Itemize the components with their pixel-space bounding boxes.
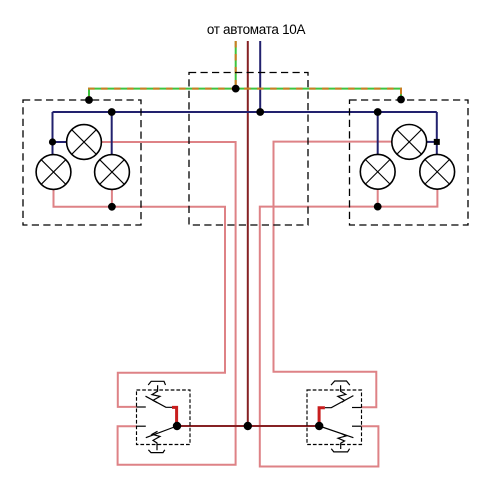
SW1 bottom bracket [148,450,164,453]
junction box left (lamp box) [23,100,141,225]
node: PE end right box [397,96,405,104]
wire: N drop to lamp R3 [436,112,438,155]
wire: PE horizontal run to both lamp boxes [89,89,401,100]
wire: L phase dark red from breaker down to switch commons [177,41,319,426]
SW1 upper lever [146,396,173,407]
switch box left (dotted) [137,390,191,445]
wire: pink switched-line right pair (lamps R2,R3 to right switch lower throw) [260,189,379,467]
node: N branch lamp R1 [434,139,440,145]
wire: N branch to lamp L1 [53,141,68,143]
node: PE end left box [85,96,93,104]
wire: pink from lamp R3 bottom [378,189,438,207]
wire: N neutral dark blue [53,41,437,155]
SW1 lower spring [152,431,160,450]
node: pink junction left pair [108,203,116,211]
SW2 lower throw terminal [352,425,362,427]
lamp L2 [36,155,71,190]
SW2 lower lever [319,426,353,438]
lamp L3 [95,155,130,190]
junction box right (lamp box) [350,100,469,225]
SW2 top bracket [331,381,350,385]
lamp L1 [67,125,102,160]
wire: pink switched-line right single (lamp R1 to right switch upper throw) [274,142,392,408]
SW2 upper spring [338,385,346,402]
node: pink junction right pair [374,203,382,211]
node: SW2 common [315,422,323,430]
wire: N drop to lamp R2 [377,112,379,155]
wire: pink switched-line left group (pair lamps L2,L3 to left switch upper throw) [54,142,438,467]
SW2 bottom bracket [331,449,349,452]
node: N junction left box [108,108,116,116]
SW1 top bracket [148,381,165,385]
lamp R3 [420,154,455,189]
SW2 lower spring [338,434,346,449]
wire: pink switched-line left single (lamp L1 to left switch lower throw) [101,142,236,465]
wire: N drop to lamp L3 [111,112,113,155]
node: N junction top [256,108,264,116]
label: от автомата 10А [11,22,490,37]
wire: PE green-yellow from breaker [89,41,401,100]
lamp R1 [392,124,427,159]
wire: N branch to lamp R1 [427,141,437,143]
SW1 lower lever [146,426,177,438]
node: N junction right box [374,108,382,116]
SW1 lower throw terminal [137,425,146,427]
SW1 upper spring [152,385,160,402]
node: L main junction [244,422,252,430]
switch SW1 left two-gang [137,381,178,452]
lamp R2 [360,154,395,189]
switch box right (dotted) [307,390,362,445]
junction box middle (ceiling box) [189,73,308,226]
node: PE junction [232,85,240,93]
node: SW1 common [173,422,181,430]
SW1 upper throw terminal [137,406,146,408]
switch SW2 right two-gang [319,381,361,452]
switch SW1 internal feed (thick red) [172,407,177,426]
switch SW2 internal feed (thick red) [319,408,325,426]
wire: N drop to lamp L2 [52,112,54,155]
node: N branch lamp L1 [49,138,56,145]
SW2 upper throw terminal [352,407,362,409]
SW2 upper lever [325,396,354,408]
wire: pink from lamp L3 bottom [111,189,113,207]
